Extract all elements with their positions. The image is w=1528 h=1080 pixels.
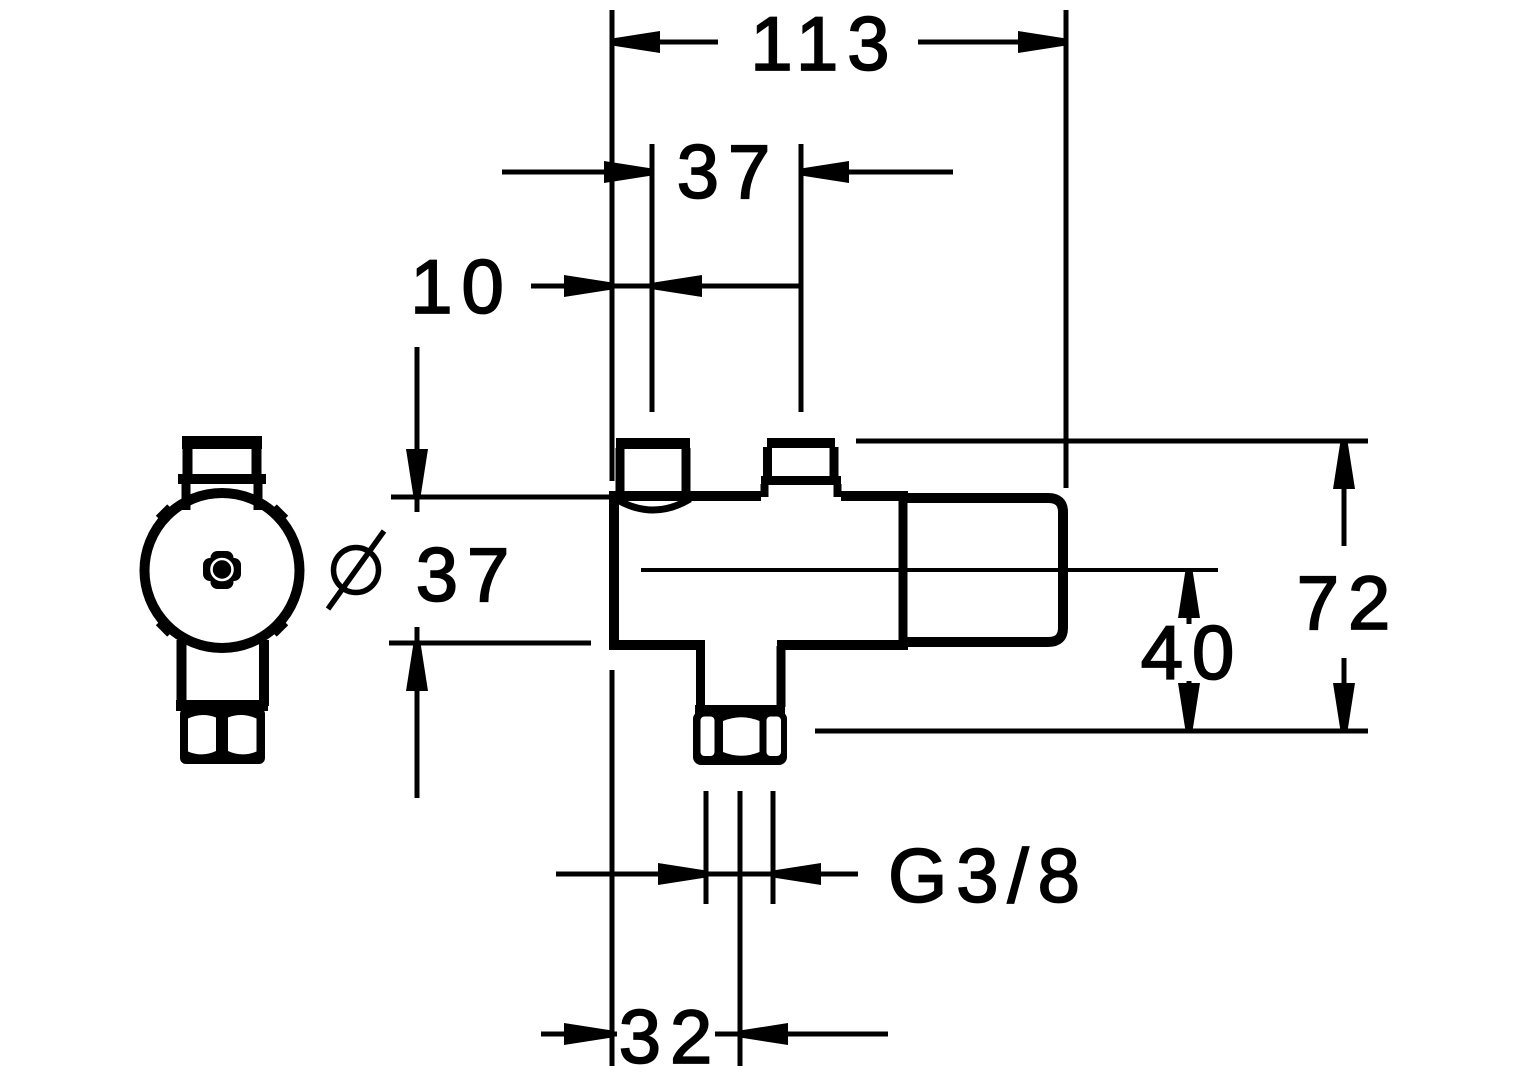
- dimension 113 line: [612, 40, 1066, 45]
- dimension 40 arrow up: [1178, 570, 1200, 618]
- front view hex nut facet window right: [767, 717, 782, 757]
- front view port1 seat arc: [616, 499, 690, 510]
- dimension 37 top arrow left: [604, 161, 652, 183]
- side view screw ring: [212, 559, 233, 580]
- extension line left (x=612) lower: [610, 670, 615, 1066]
- dimension dia37 arrow down: [406, 449, 428, 497]
- side view cap left side: [183, 446, 193, 476]
- side view chamfer tick lower-left: [159, 622, 170, 633]
- front view body bottom edge right: [777, 640, 908, 650]
- svg-text:37: 37: [416, 533, 519, 618]
- dimension dia37 line upper: [415, 347, 420, 512]
- side view cap right side: [252, 446, 262, 476]
- label 37 diameter: [416, 533, 519, 618]
- front view port2 flange: [761, 476, 841, 485]
- dimension G3/8 arrow left: [658, 863, 706, 885]
- side view tube left: [177, 640, 187, 706]
- front view port2 cap: [767, 438, 835, 448]
- dimension 37 top line left: [502, 170, 652, 175]
- dimension 32 line: [541, 1032, 888, 1037]
- front view port1 right side: [682, 448, 691, 491]
- extension line right (x=1066): [1064, 10, 1069, 488]
- front view hex nut facet window middle: [723, 717, 760, 756]
- dimension 72 arrow up: [1333, 441, 1355, 489]
- extension line body top (y=497): [391, 495, 612, 500]
- extension line G3/8 right (x=773): [771, 791, 776, 904]
- svg-text:40: 40: [1141, 611, 1244, 696]
- dimension 32 arrow left: [564, 1023, 612, 1045]
- front view outlet stub right: [777, 646, 786, 707]
- dimension 37 top arrow right: [801, 161, 849, 183]
- label 10: [410, 245, 513, 330]
- extension line G3/8 left (x=706): [704, 791, 709, 904]
- side view neck right: [254, 482, 263, 510]
- side view tube right: [259, 640, 269, 706]
- front view divider line: [899, 496, 908, 646]
- front view port2 right side: [830, 447, 839, 477]
- extension line bottom center (x=740): [738, 791, 743, 1066]
- front view port1 left side: [616, 448, 625, 491]
- svg-text:G3/8: G3/8: [888, 834, 1089, 919]
- svg-text:10: 10: [410, 245, 513, 330]
- front view port2 step left: [761, 484, 769, 497]
- side view screw cross horizontal: [203, 558, 241, 581]
- extension line port2 center (x=801): [799, 144, 804, 412]
- side view neck left: [182, 482, 191, 510]
- side view nut body: [180, 708, 265, 764]
- side view cap bar: [182, 436, 262, 449]
- label 113: [750, 2, 898, 87]
- dimension 32 arrow right: [740, 1023, 788, 1045]
- extension line outlet end (y=731): [815, 729, 1368, 734]
- side view chamfer tick lower-right: [274, 622, 285, 633]
- front view hex nut body: [693, 711, 787, 765]
- side view nut facet window right: [228, 715, 257, 754]
- dimension G3/8 line: [556, 872, 858, 877]
- diameter symbol circle: [334, 548, 379, 593]
- label 32 background: [617, 1005, 715, 1065]
- front view body top edge left: [609, 491, 761, 501]
- extension line port1 center (x=652): [650, 144, 655, 412]
- dimension 10 line: [531, 284, 801, 289]
- dimension 113 arrow left: [612, 31, 660, 53]
- dimension 72 arrow down: [1333, 683, 1355, 731]
- dimension 10 arrow left: [564, 275, 612, 297]
- label 72 background: [1296, 546, 1392, 658]
- diameter symbol slash: [328, 531, 384, 609]
- dimension 10 arrow right: [654, 275, 702, 297]
- label 40: [1141, 611, 1244, 696]
- front view port2 left side: [763, 447, 772, 477]
- extension line top of ports (y=441): [856, 439, 1368, 444]
- dimension 72 line: [1342, 441, 1347, 731]
- front view port2 step right: [834, 484, 842, 497]
- dimension 113 arrow right: [1018, 31, 1066, 53]
- front view port1 cap: [616, 438, 690, 449]
- svg-text:32: 32: [619, 995, 722, 1080]
- front view body top edge right: [841, 491, 908, 501]
- dimension 40 arrow down: [1178, 683, 1200, 731]
- dimension G3/8 arrow right: [773, 863, 821, 885]
- dimension 37 top line right: [801, 170, 953, 175]
- dimension dia37 line lower: [415, 627, 420, 798]
- label 72: [1297, 561, 1400, 646]
- front view hex nut flange: [695, 705, 785, 715]
- side view body circle: [145, 493, 300, 648]
- extension line body bottom (y=643): [389, 641, 591, 646]
- dimension dia37 arrow up: [406, 643, 428, 691]
- front view outlet stub left: [696, 646, 705, 707]
- side view screw cross vertical: [211, 551, 234, 589]
- svg-text:113: 113: [750, 2, 898, 87]
- side view nut flange: [176, 700, 268, 711]
- side view chamfer tick upper-right: [274, 508, 285, 519]
- front view hex nut facet window left: [701, 717, 715, 757]
- side view chamfer tick upper-left: [159, 508, 170, 519]
- side view flange bar: [178, 474, 266, 484]
- dimension 40 line: [1187, 570, 1192, 731]
- label 37 top: [677, 130, 780, 215]
- svg-text:72: 72: [1297, 561, 1400, 646]
- label 113 background: [718, 12, 918, 73]
- label 32: [619, 995, 722, 1080]
- extension line left (x=612) upper: [610, 10, 615, 481]
- label 40 background: [1140, 624, 1238, 681]
- front view body bottom edge left: [609, 640, 705, 650]
- side view nut facet window left: [188, 715, 216, 754]
- front view body left edge: [609, 496, 619, 645]
- svg-text:37: 37: [677, 130, 780, 215]
- label G3/8: [888, 834, 1089, 919]
- centerline (y=570): [641, 568, 1218, 572]
- front view cartridge cap: [903, 498, 1063, 642]
